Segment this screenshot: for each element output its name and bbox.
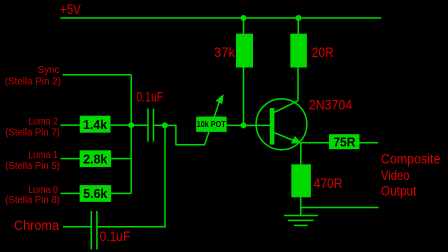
wire Luma 2 bbox=[61, 124, 80, 126]
resistor 37k bbox=[236, 34, 253, 68]
svg-text:Luma 1: Luma 1 bbox=[28, 150, 58, 161]
wire 1.4k out bbox=[111, 124, 132, 126]
wire 470R to ground bbox=[300, 197, 302, 215]
transistor emitter lead bbox=[274, 133, 294, 141]
wire to coupling cap bbox=[131, 124, 148, 126]
potentiometer wiper arrow bbox=[204, 94, 223, 145]
junction dot base/37k bbox=[241, 122, 247, 128]
svg-text:75R: 75R bbox=[333, 134, 356, 149]
svg-text:(Stella Pin 8): (Stella Pin 8) bbox=[5, 195, 60, 206]
svg-text:2.8k: 2.8k bbox=[83, 151, 108, 166]
resistor 1.4k bbox=[80, 116, 111, 133]
wire output return bbox=[301, 207, 379, 209]
capacitor C2 0.1uF plates bbox=[91, 211, 97, 250]
wire 5.6k out bbox=[111, 192, 131, 194]
wire C2 to pot node bbox=[97, 127, 165, 227]
resistor 5.6k bbox=[80, 185, 112, 202]
wire 75R to output bbox=[360, 142, 379, 144]
potentiometer 10k POT bbox=[196, 117, 227, 132]
svg-text:(Stella Pin 2): (Stella Pin 2) bbox=[5, 77, 61, 88]
wire +5V to 20R bbox=[297, 18, 299, 34]
wire Luma 0 bbox=[61, 192, 80, 194]
svg-text:0.1uF: 0.1uF bbox=[100, 229, 131, 244]
svg-text:2N3704: 2N3704 bbox=[309, 96, 353, 112]
svg-text:470R: 470R bbox=[314, 175, 343, 191]
junction dot pot node bbox=[162, 122, 168, 128]
wire Chroma bbox=[63, 226, 91, 228]
svg-text:0.1uF: 0.1uF bbox=[136, 89, 163, 104]
junction dot 37k/+5V bbox=[241, 15, 247, 21]
svg-text:20R: 20R bbox=[312, 44, 334, 60]
Composite Video Output label bbox=[381, 150, 441, 198]
wire 2.8k out bbox=[111, 158, 131, 160]
svg-text:Video: Video bbox=[381, 167, 410, 183]
ground bbox=[284, 216, 318, 226]
svg-text:Composite: Composite bbox=[381, 150, 441, 166]
svg-text:+5V: +5V bbox=[60, 1, 81, 17]
wire input rail bbox=[130, 75, 132, 194]
wire Luma 1 bbox=[61, 158, 80, 160]
transistor base bar bbox=[270, 108, 275, 145]
svg-text:(Stella Pin 5): (Stella Pin 5) bbox=[5, 161, 60, 172]
transistor Q1 body circle bbox=[256, 99, 307, 150]
wire pot to base bbox=[227, 124, 270, 126]
transistor emitter arrowhead bbox=[291, 136, 301, 144]
svg-text:5.6k: 5.6k bbox=[83, 186, 108, 201]
+5V power rail wire bbox=[60, 17, 381, 19]
wire emitter to 470R bbox=[300, 143, 302, 165]
wire C1 out bbox=[154, 124, 165, 126]
svg-text:Luma 2: Luma 2 bbox=[28, 117, 58, 128]
resistor 2.8k bbox=[80, 150, 112, 167]
wire node to pot wiper bbox=[165, 125, 205, 144]
junction dot input node bbox=[128, 122, 134, 128]
wire emitter to 75R bbox=[301, 142, 329, 144]
junction dot 20R/+5V bbox=[296, 15, 302, 21]
resistor 470R bbox=[291, 164, 311, 197]
svg-text:(Stella Pin 7): (Stella Pin 7) bbox=[5, 128, 60, 139]
wire 37k to base node bbox=[243, 68, 245, 126]
capacitor C1 0.1uF plates bbox=[148, 109, 154, 142]
svg-text:10k POT: 10k POT bbox=[197, 120, 226, 129]
wire +5V to 37k bbox=[243, 18, 245, 34]
svg-text:Output: Output bbox=[381, 182, 417, 198]
svg-text:Chroma: Chroma bbox=[14, 217, 59, 233]
svg-text:1.4k: 1.4k bbox=[83, 117, 108, 132]
svg-text:Sync: Sync bbox=[38, 65, 60, 76]
transistor collector lead bbox=[274, 101, 298, 113]
wire 20R to collector bbox=[297, 68, 299, 101]
svg-text:37k: 37k bbox=[214, 44, 236, 60]
resistor 75R bbox=[329, 134, 360, 149]
wire Sync bbox=[63, 74, 132, 76]
resistor 20R bbox=[290, 34, 307, 68]
